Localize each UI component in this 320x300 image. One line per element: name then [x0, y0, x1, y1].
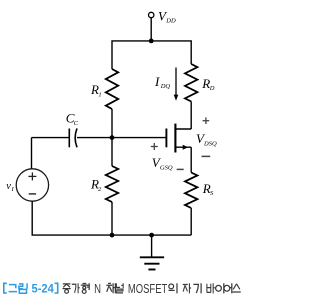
- wire R2 to bottom rail: [111, 202, 113, 235]
- svg-text:I: I: [154, 74, 160, 89]
- junction bottom mid: [110, 233, 115, 238]
- hangul gi: [193, 283, 201, 293]
- wire R1 bottom to gate node: [111, 109, 113, 138]
- svg-text:GSQ: GSQ: [160, 165, 173, 172]
- wire source down to RS: [190, 147, 192, 172]
- label vi: [6, 181, 14, 193]
- hangul rim: [19, 283, 27, 293]
- svg-text:N: N: [94, 281, 101, 296]
- wire top rail: [112, 41, 191, 69]
- svg-text:DQ: DQ: [160, 83, 171, 90]
- label RS: [202, 181, 214, 197]
- wire left to capacitor: [32, 137, 70, 139]
- caption bracket close: [55, 283, 58, 293]
- label VDSQ plus: [203, 117, 210, 124]
- wire source lead: [175, 146, 191, 148]
- hangul ja: [183, 283, 191, 293]
- node VDD terminal: [149, 12, 154, 17]
- caption figure number [그림 5-24]: [4, 283, 58, 293]
- caption korean text: [63, 283, 241, 293]
- capacitor CC: [69, 128, 77, 147]
- source vi: [16, 169, 48, 201]
- resistor RS: [185, 173, 197, 209]
- resistor R2: [106, 166, 118, 202]
- wire left branch down to source vi: [31, 138, 33, 169]
- wire gate rail: [77, 137, 166, 139]
- transistor M1 gate bar: [165, 129, 167, 148]
- junction gate node: [110, 135, 115, 140]
- label VGSQ plus: [151, 143, 158, 150]
- hangul eo: [224, 283, 232, 293]
- svg-text:D: D: [209, 85, 215, 92]
- junction bottom ground: [149, 233, 154, 238]
- hangul ga: [72, 283, 80, 293]
- wire RS to bottom rail: [190, 208, 192, 235]
- hangul i: [216, 283, 224, 293]
- hangul ui: [169, 283, 178, 293]
- svg-text:S: S: [210, 190, 214, 197]
- source vi plus: [28, 172, 36, 180]
- label VDSQ: [196, 131, 217, 148]
- hangul jeung: [63, 284, 71, 293]
- svg-text:I: I: [11, 186, 15, 193]
- svg-text:1: 1: [98, 91, 101, 98]
- svg-text:2: 2: [98, 186, 102, 193]
- label R2: [90, 176, 102, 193]
- hangul ba: [207, 283, 215, 293]
- source vi minus: [29, 193, 36, 195]
- label VGSQ minus: [177, 168, 184, 170]
- hangul neol: [116, 283, 123, 293]
- resistor R1: [106, 69, 118, 109]
- label CC: [66, 111, 79, 128]
- label VGSQ: [152, 155, 173, 172]
- hangul geu: [9, 285, 17, 292]
- svg-text:DD: DD: [165, 17, 176, 24]
- label VDSQ minus: [202, 155, 211, 157]
- wire gate node to R2: [111, 138, 113, 166]
- hangul hyeong: [81, 283, 89, 293]
- label R1: [90, 82, 102, 99]
- source arrow: [183, 145, 189, 150]
- hangul seu: [233, 284, 241, 292]
- label IDQ: [154, 74, 170, 90]
- hangul chae: [106, 283, 115, 293]
- svg-text:DSQ: DSQ: [203, 141, 217, 148]
- wire drain lead: [175, 128, 191, 130]
- wire vi to bottom rail: [31, 201, 33, 235]
- wire VDD stub: [150, 18, 152, 41]
- caption bracket open: [4, 283, 7, 293]
- node VDD label: [158, 8, 176, 24]
- svg-text:MOSFET: MOSFET: [128, 281, 167, 296]
- resistor RD: [185, 64, 197, 102]
- label RD: [201, 76, 215, 92]
- svg-text:C: C: [74, 120, 79, 127]
- wire bottom rail: [32, 234, 192, 236]
- transistor M1 channel bar: [174, 124, 176, 153]
- svg-text:5-24: 5-24: [32, 282, 54, 296]
- current arrow IDQ: [175, 68, 177, 97]
- wire RD to drain: [190, 102, 192, 130]
- ground: [151, 235, 153, 257]
- junction top: [149, 39, 154, 44]
